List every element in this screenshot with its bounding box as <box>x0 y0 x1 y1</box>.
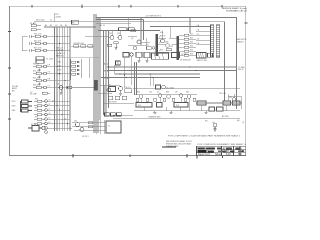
transistor Q14 <box>76 123 80 127</box>
label U3 <box>181 54 187 56</box>
svg-text:10: 10 <box>49 99 51 101</box>
label comparator rows <box>190 34 193 56</box>
svg-text:SCHEMATIC A2 (7): SCHEMATIC A2 (7) <box>226 9 247 12</box>
label terminal rows lower <box>49 99 51 124</box>
svg-text:R52: R52 <box>190 38 193 40</box>
wire bus center-right vertical <box>104 31 109 116</box>
svg-text:NOTE 3: NOTE 3 <box>82 136 89 138</box>
label R23 <box>33 78 40 80</box>
label R33 <box>35 108 38 110</box>
ground Q1 <box>59 90 62 95</box>
svg-text:7: 7 <box>159 50 160 52</box>
label R31 <box>35 99 38 101</box>
zone tick top 4 <box>177 5 179 8</box>
svg-text:C51: C51 <box>146 45 149 47</box>
wire feed x114.5 <box>114 65 116 74</box>
label +15V rail <box>145 15 161 17</box>
ground U cluster 1 <box>137 57 140 62</box>
wire header underline <box>57 56 99 58</box>
resistor R64 <box>163 98 166 101</box>
svg-text:R53: R53 <box>190 42 193 44</box>
svg-text:Q7: Q7 <box>157 92 159 94</box>
wire drop from TP1 <box>53 13 55 22</box>
wire Q6 top <box>100 84 120 86</box>
zone tick top 0 <box>31 5 33 8</box>
title block smudge row2 <box>197 150 243 152</box>
svg-text:E1: E1 <box>213 122 215 124</box>
label Q1 <box>57 84 59 86</box>
svg-text:U2 SN7400N: U2 SN7400N <box>180 59 191 61</box>
label rail y118 right <box>237 119 240 122</box>
label R12 <box>34 41 42 43</box>
resistor R35 <box>34 118 45 120</box>
zone tick bottom 3 <box>186 154 188 157</box>
label bus names <box>45 24 67 27</box>
svg-text:R22 1K: R22 1K <box>33 71 40 73</box>
net arrow label B <box>104 70 109 73</box>
small box Q5b <box>123 53 133 58</box>
resistor R82 <box>88 126 93 128</box>
wire top rail y19.5 <box>96 19 144 21</box>
wire U1 U2 links <box>158 27 176 53</box>
svg-text:R63: R63 <box>166 92 169 94</box>
diode CR24 <box>72 73 80 75</box>
wire R44 row link <box>71 45 94 47</box>
diode CR22 <box>72 65 80 67</box>
resistor R61 <box>136 98 139 101</box>
svg-text:C3: C3 <box>55 25 57 27</box>
svg-text:T1 115V: T1 115V <box>46 59 54 61</box>
capacitor chain C22 <box>38 75 40 78</box>
tick below title left <box>196 156 198 159</box>
resistor R81 <box>88 122 93 124</box>
IC U1 bar <box>155 34 158 56</box>
box A5 F <box>136 52 142 57</box>
wire rail y30.5 <box>98 30 160 32</box>
terminal strip TB1 upper <box>44 35 47 52</box>
box R73 <box>233 101 241 105</box>
svg-text:CHASSIS GND: CHASSIS GND <box>148 115 161 118</box>
label C51 <box>146 36 166 47</box>
wire output verticals <box>96 120 104 134</box>
ground amp 3 <box>204 111 207 113</box>
label zone text <box>30 92 32 94</box>
wire amp band top rail <box>134 94 197 96</box>
potentiometer R2 <box>31 29 41 31</box>
IC U4 box <box>172 53 180 58</box>
svg-text:PIN 12: PIN 12 <box>238 69 244 71</box>
terminal strip TB1 middle <box>44 65 47 89</box>
svg-text:Q21: Q21 <box>109 33 112 35</box>
zone tick left 1 <box>8 31 11 33</box>
wire Q21 stub <box>111 31 113 36</box>
label F1 <box>31 123 37 126</box>
transistor Q6 stage mid <box>109 87 123 92</box>
svg-text:14: 14 <box>49 117 51 119</box>
resistor R62 <box>146 98 149 101</box>
svg-text:C45 2.2: C45 2.2 <box>125 87 131 89</box>
svg-text:(A): (A) <box>237 119 240 122</box>
svg-text:3 AND 5: 3 AND 5 <box>237 40 244 43</box>
wire bus left vertical lines <box>55 27 71 131</box>
amplifier band labels <box>137 92 232 99</box>
svg-text:Figure 8-21.: Figure 8-21. <box>198 154 211 156</box>
box filter FL1 <box>136 103 152 108</box>
svg-text:Q1: Q1 <box>57 84 59 86</box>
svg-text:+15V SEE NOTE 2: +15V SEE NOTE 2 <box>145 15 161 17</box>
wire x104 drop <box>103 85 105 115</box>
svg-text:5: 5 <box>159 42 160 44</box>
connector XA2 bar left <box>211 25 214 57</box>
wire top feed y=21.7 <box>34 21 96 23</box>
svg-text:Q10: Q10 <box>229 97 232 99</box>
svg-text:C61: C61 <box>149 92 152 94</box>
svg-text:R11 4.7K: R11 4.7K <box>34 34 42 36</box>
note right edge <box>237 39 247 43</box>
junction dots mid bus <box>105 66 196 78</box>
delay line DL1 <box>156 85 166 89</box>
svg-text:C41 .01: C41 .01 <box>99 25 105 27</box>
label R47 <box>125 87 131 89</box>
wire amp right rail y103 <box>196 102 242 104</box>
resistor R33 <box>34 109 45 111</box>
pad row dark 3 <box>117 113 122 116</box>
svg-text:Schem: Schem <box>215 154 222 156</box>
wire bus center vertical <box>94 14 100 133</box>
svg-text:Q12 1854: Q12 1854 <box>166 87 174 89</box>
zone tick top 3 <box>130 5 132 8</box>
svg-text:C52: C52 <box>170 46 173 48</box>
resistor R66 <box>184 98 187 101</box>
label Q21 <box>109 33 120 35</box>
svg-text:FL2: FL2 <box>176 105 179 107</box>
label mid bus right <box>238 66 245 71</box>
resistor R31 <box>34 100 45 102</box>
resistor R32 <box>34 105 45 107</box>
title block dark text row2 <box>198 150 246 153</box>
transistor Q5 <box>166 44 170 48</box>
label note small left <box>82 136 89 138</box>
label R21 <box>33 64 40 66</box>
svg-text:8-29: 8-29 <box>226 154 231 156</box>
wire terminal row 66.5 <box>46 66 70 68</box>
pin labels U1 <box>159 31 164 53</box>
potentiometer R1 <box>31 23 41 27</box>
box R74 <box>209 107 215 111</box>
resistor R23 <box>33 79 44 81</box>
border frame <box>10 6 246 155</box>
svg-text:13: 13 <box>49 113 51 115</box>
svg-text:C1: C1 <box>50 20 52 22</box>
comparator row K <box>184 34 189 56</box>
label R24 <box>33 85 40 87</box>
svg-text:R57: R57 <box>160 50 163 52</box>
note left edge P/O board <box>12 85 18 92</box>
wire long rail y118.4 <box>113 117 240 119</box>
svg-text:R101 10K: R101 10K <box>36 20 45 22</box>
label DL1 <box>166 87 174 89</box>
wire feed x124.5 <box>124 58 126 88</box>
wire Q2 links <box>128 37 150 51</box>
mid ladder CR ladder <box>71 59 82 80</box>
wire terminal rows lower <box>47 101 72 128</box>
pad row dark 1 <box>105 113 110 116</box>
svg-text:R12 4.7K: R12 4.7K <box>34 41 42 43</box>
transistor Q11 <box>187 95 191 99</box>
label bus tiny <box>99 25 105 27</box>
resistor R43 <box>107 44 112 46</box>
shield bar dark <box>94 80 98 91</box>
label R101 <box>36 20 52 22</box>
title block <box>197 146 247 155</box>
label terminal rows mid <box>48 65 51 88</box>
transistor Q6b <box>107 88 111 92</box>
svg-text:9 J: 9 J <box>48 86 50 88</box>
svg-text:R61: R61 <box>137 92 140 94</box>
label R22 <box>33 71 40 73</box>
ground Q6 <box>119 91 122 96</box>
ground amp 1 <box>153 111 156 113</box>
svg-text:D4: D4 <box>60 25 62 27</box>
svg-text:A2 GND: A2 GND <box>222 115 229 118</box>
svg-text:CR22: CR22 <box>57 66 61 68</box>
wire ladder bracket <box>88 58 90 78</box>
box filter FL2 <box>157 103 163 108</box>
transistor Q8 <box>158 94 162 98</box>
wire mid bus y70.5 <box>107 70 237 72</box>
svg-text:R23 1K: R23 1K <box>33 78 40 80</box>
label R11 <box>34 34 42 36</box>
tick below title mid <box>222 156 224 158</box>
wire stub y115 <box>113 114 133 116</box>
zone tick left 4 <box>8 118 11 120</box>
svg-text:Q22: Q22 <box>117 33 120 35</box>
wire stub x143.5 <box>143 20 145 41</box>
note underline dark <box>162 146 176 147</box>
box filter FL3 <box>174 103 188 108</box>
capacitor C42 dark <box>119 28 127 31</box>
note line above title <box>168 134 240 137</box>
ground amp 2 <box>169 111 172 113</box>
label rail y121 small <box>205 120 208 122</box>
svg-text:R58 91: R58 91 <box>160 36 166 38</box>
title block figure row <box>198 154 242 156</box>
diode CR21 <box>72 61 80 63</box>
wire output rows <box>72 123 106 131</box>
wire feed y=27 <box>44 26 96 28</box>
wire Q6 bottom <box>98 92 112 94</box>
label zone 7 right <box>242 122 245 124</box>
wire top rail y17.5 <box>96 18 237 110</box>
svg-text:R65: R65 <box>186 92 189 94</box>
title block dark text row1 <box>198 147 243 150</box>
wire drop x150 <box>149 74 151 86</box>
svg-text:Q8: Q8 <box>175 92 177 94</box>
resistor R67 <box>193 98 196 101</box>
wire mid bus y74 <box>115 73 201 75</box>
svg-text:A1: A1 <box>45 24 47 27</box>
svg-text:6 F: 6 F <box>48 65 50 67</box>
switch S1 contacts <box>21 100 33 112</box>
IC U3 box hatched <box>152 53 169 59</box>
resistor R46 <box>88 45 93 47</box>
zone tick top 1 <box>81 5 83 8</box>
wire x131 drop <box>131 56 133 85</box>
svg-text:R54: R54 <box>190 46 193 48</box>
net arrow label C <box>104 77 109 80</box>
svg-text:B2: B2 <box>50 25 52 27</box>
zone tick bottom 2 <box>129 154 131 157</box>
label rail y118 mid <box>222 115 229 118</box>
capacitor C11 <box>30 35 32 38</box>
wire drop x128.5 <box>128 18 130 31</box>
svg-text:R44 R45 R46: R44 R45 R46 <box>74 43 84 45</box>
capacitor chain C23 <box>38 82 40 85</box>
capacitor C51 <box>147 47 155 50</box>
label R48 row <box>109 102 116 104</box>
svg-text:R56: R56 <box>190 54 193 56</box>
svg-text:C2: C2 <box>30 92 32 94</box>
svg-text:R35: R35 <box>35 117 38 119</box>
transistor Q15 <box>80 128 84 132</box>
svg-text:SCHEM DIAG: SCHEM DIAG <box>198 150 213 153</box>
label R13 <box>34 48 42 50</box>
resistor R42 <box>114 42 119 44</box>
svg-text:CR21: CR21 <box>57 62 61 64</box>
label R35 <box>35 117 38 119</box>
transistor Q21 <box>110 36 114 40</box>
svg-text:FOR COMPONENT LOCATIONS AND PA: FOR COMPONENT LOCATIONS AND PART NUMBERS… <box>168 134 240 137</box>
crystal Y1 symbol <box>213 123 217 131</box>
transformer T1 box <box>36 57 54 64</box>
sheet title note top right <box>222 7 247 12</box>
connector XA2 feed wires <box>196 27 211 45</box>
svg-text:3: 3 <box>159 36 160 38</box>
box R71 <box>197 101 206 105</box>
label S1 rows <box>12 101 17 112</box>
label CR ladder <box>57 62 61 76</box>
wire y103.5 <box>104 103 134 105</box>
terminal strip TB2 lower <box>45 100 48 134</box>
wire bus left drop x134 <box>134 62 136 95</box>
svg-text:CR24: CR24 <box>57 74 61 76</box>
resistor row R50 <box>122 96 127 100</box>
svg-text:11: 11 <box>49 104 51 106</box>
wire amp verticals <box>141 94 241 111</box>
svg-text:FL1: FL1 <box>138 105 141 107</box>
svg-text:R38 220: R38 220 <box>56 50 63 52</box>
wire terminal row 43.5 <box>46 43 70 45</box>
svg-text:CR23: CR23 <box>57 70 61 72</box>
transistor Q2 <box>137 40 141 44</box>
resistor R13 <box>31 49 44 51</box>
label Q6 <box>108 85 110 87</box>
svg-text:FOR COMPLETE SCHEMATIC SEE SHE: FOR COMPLETE SCHEMATIC SEE SHEET 4 <box>198 143 246 146</box>
capacitor C13 <box>30 49 32 52</box>
svg-text:C31 .02: C31 .02 <box>56 48 63 50</box>
svg-text:R31: R31 <box>35 99 38 101</box>
svg-text:VERT AMP: VERT AMP <box>223 150 236 153</box>
box R72 <box>223 101 231 105</box>
resistor R44 <box>74 45 79 47</box>
resistor R24 <box>33 86 44 88</box>
label Y1 <box>213 122 215 124</box>
wire rail y26.5 right <box>150 26 211 28</box>
resistor R65 <box>172 98 175 101</box>
transistor Q22 <box>118 36 122 40</box>
zone tick right 1 <box>244 22 247 24</box>
component CR1 top small <box>42 92 50 94</box>
net arrow label A <box>104 62 109 65</box>
svg-text:R24 1K: R24 1K <box>33 85 40 87</box>
svg-text:XA2 P/O W4: XA2 P/O W4 <box>197 59 207 62</box>
gate box U5 <box>116 61 121 65</box>
wire drop x153 <box>152 78 154 87</box>
capacitor chain C21 <box>38 68 40 71</box>
transistor Q9 <box>167 95 171 99</box>
svg-text:Q14: Q14 <box>74 120 77 122</box>
wire top rail y23.3 <box>96 22 131 24</box>
fuse F1 cluster <box>28 126 45 132</box>
resistor R45 <box>166 49 172 51</box>
note block left of title <box>166 141 192 148</box>
label rail y118 left <box>148 115 161 118</box>
wire top rail y21.7 <box>96 22 225 101</box>
diode CR23 <box>72 69 80 71</box>
resistor R45b <box>81 45 86 47</box>
resistor R36 <box>34 123 45 125</box>
svg-text:F1 2A: F1 2A <box>31 123 37 126</box>
resistor R34 <box>34 114 45 116</box>
label output stage <box>74 120 110 127</box>
ground U cluster 2 <box>145 58 148 62</box>
resistor row R48 <box>108 96 113 100</box>
wire stub x141 <box>140 18 142 46</box>
connector XA2 bar right <box>216 25 219 57</box>
svg-text:E5: E5 <box>65 25 67 27</box>
output stage box M1 <box>106 121 121 133</box>
svg-text:Q2: Q2 <box>131 38 133 40</box>
svg-text:15: 15 <box>49 122 51 124</box>
svg-text:A4 ►: A4 ► <box>104 62 109 65</box>
svg-text:Q6: Q6 <box>108 85 110 87</box>
label Q2 <box>131 38 133 40</box>
label R2 ADJ <box>30 22 36 25</box>
label S1 note <box>30 94 37 96</box>
wire terminal row 73.5 <box>46 73 70 75</box>
svg-text:R13 4.7K: R13 4.7K <box>34 48 42 50</box>
transistor Q1 stage <box>59 86 94 90</box>
wire terminal row 50.5 <box>46 50 70 52</box>
title block smudge row1 <box>197 147 240 149</box>
wire amp ground rail y110.7 <box>134 110 240 112</box>
label header row <box>56 48 65 58</box>
wire stub x190 <box>189 18 191 34</box>
svg-text:R55: R55 <box>190 50 193 52</box>
resistor R22 <box>33 72 44 74</box>
svg-text:U3 1820: U3 1820 <box>181 54 187 56</box>
svg-text:T2: T2 <box>108 125 110 127</box>
transistor Q3 <box>133 46 137 50</box>
IC U2 bar <box>176 36 179 60</box>
wire link left column <box>22 37 28 51</box>
wire bus left drop x136 <box>136 62 138 95</box>
wire terminal row 36.5 <box>46 36 70 38</box>
label TP1 <box>55 14 62 18</box>
label connector <box>197 59 207 62</box>
label XA2 pins <box>197 24 200 45</box>
transistor Q7 <box>139 95 143 99</box>
